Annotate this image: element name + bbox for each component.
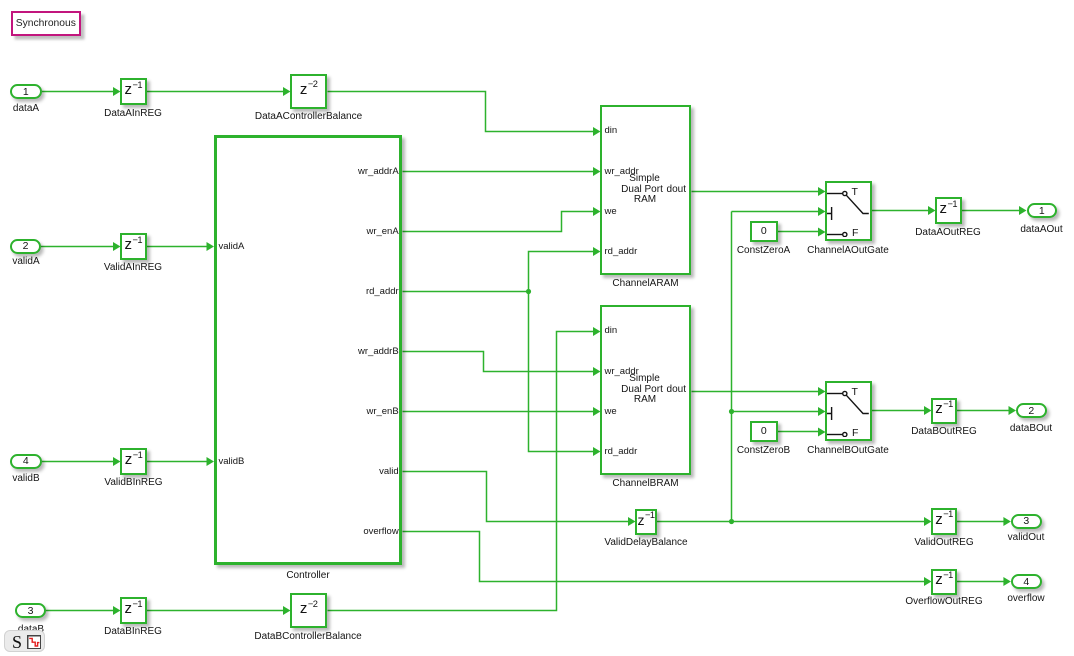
ChannelBRAM port label din — [605, 325, 618, 337]
wire Controller.wr_enA-ARAM.we — [403, 212, 595, 232]
delay OverflowOutREG — [931, 569, 957, 596]
junction rd_addr — [526, 289, 531, 294]
inport 4 validB — [10, 454, 42, 469]
delay DataBControllerBalance — [290, 593, 327, 628]
wire OverflowOutREG-out4 — [957, 581, 1005, 583]
wire in4-ValidBInREG — [42, 461, 114, 463]
delay DataBInREG — [120, 597, 147, 624]
delay DataAOutREG — [935, 197, 962, 224]
wire Controller.rd_addr-junction — [403, 291, 529, 293]
ChannelBRAM text Dual Port — [621, 384, 663, 396]
ChannelBRAM text RAM — [634, 394, 656, 406]
wire Controller.wr_addrB-BRAM.wr_addr — [403, 352, 595, 372]
wire rd_addr-BRAM.rd_addr — [529, 292, 595, 452]
Controller port label wr_addrA — [358, 166, 399, 178]
delay ValidAInREG — [120, 233, 147, 260]
wire rd_addr-ARAM.rd_addr — [529, 252, 595, 292]
inport 3 dataB — [15, 603, 46, 618]
badge sample-time legend S — [4, 630, 45, 652]
wire in2-ValidAInREG — [41, 246, 114, 248]
junction valid-at-ValidOutREG-run — [729, 519, 734, 524]
wire valid-ChannelBOutGate.ctl — [732, 411, 820, 413]
constant ConstZeroB — [750, 421, 778, 443]
switch ChannelAOutGate — [825, 181, 872, 241]
inport 1 dataA — [10, 84, 42, 99]
ChannelARAM port label wr_addr — [605, 166, 639, 178]
wire ValidAInREG-Controller.validA — [147, 246, 209, 248]
ChannelARAM port label rd_addr — [605, 246, 638, 258]
ChannelBRAM port label rd_addr — [605, 446, 638, 458]
ChannelARAM text RAM — [634, 194, 656, 206]
Controller port label rd_addr — [366, 286, 399, 298]
delay ValidOutREG — [931, 508, 957, 535]
delay ValidDelayBalance — [635, 509, 657, 535]
junction valid-at-ChannelBOutGate-ctl — [729, 409, 734, 414]
wire DataBInREG-z2B — [147, 610, 285, 612]
wire ARAM.dout-ChannelAOutGate.T — [692, 191, 820, 193]
RAM ChannelARAM — [600, 105, 691, 275]
Controller port label overflow — [363, 526, 398, 538]
wire ConstZeroB-ChannelBOutGate.F — [778, 431, 819, 433]
wire valid-branch-vertical — [731, 212, 733, 522]
outport 4 overflow — [1011, 574, 1042, 589]
ChannelARAM port label we — [605, 206, 617, 218]
wire BRAM.dout-ChannelBOutGate.T — [692, 391, 820, 393]
wire DataAOutREG-out1 — [962, 210, 1021, 212]
Controller port label valid — [379, 466, 399, 478]
constant ConstZeroA — [750, 221, 778, 243]
wire Controller.wr_enB-BRAM.we — [403, 411, 595, 413]
switch ChannelBOutGate — [825, 381, 872, 441]
delay DataAControllerBalance — [290, 74, 327, 109]
Controller port label validA — [219, 241, 245, 253]
ChannelBRAM port label wr_addr — [605, 366, 639, 378]
delay ValidBInREG — [120, 448, 147, 475]
wire DataAInREG-z2A — [147, 91, 285, 93]
ChannelARAM text Dual Port — [621, 184, 663, 196]
subsystem Controller — [214, 135, 403, 565]
outport 3 validOut — [1011, 514, 1042, 529]
wire ValidOutREG-out3 — [957, 521, 1005, 523]
wire z2A-ChannelARAM.din — [328, 92, 595, 132]
annotation Synchronous — [11, 11, 82, 36]
outport 1 dataAOut — [1027, 203, 1058, 218]
ChannelARAM port label dout — [667, 184, 686, 196]
wire Controller.overflow-OverflowOutREG — [403, 532, 926, 582]
outport 2 dataBOut — [1016, 403, 1047, 418]
Controller port label validB — [219, 456, 245, 468]
wire in3-DataBInREG — [46, 610, 114, 612]
ChannelBRAM port label we — [605, 406, 617, 418]
Controller port label wr_addrB — [358, 346, 399, 358]
wire z2B-ChannelBRAM.din — [328, 332, 595, 611]
wire ValidBInREG-Controller.validB — [147, 461, 208, 463]
wire ChannelBOutGate-DataBOutREG — [872, 410, 925, 412]
Controller port label wr_enB — [366, 406, 398, 418]
ChannelARAM text Simple — [629, 173, 660, 185]
Controller port label wr_enA — [366, 226, 398, 238]
delay DataAInREG — [120, 78, 147, 105]
wire DataBOutREG-out2 — [957, 410, 1010, 412]
ChannelBRAM port label dout — [667, 384, 686, 396]
ChannelARAM port label din — [605, 125, 618, 137]
wire ConstZeroA-ChannelAOutGate.F — [778, 231, 819, 233]
wire ChannelAOutGate-DataAOutREG — [872, 210, 929, 212]
inport 2 validA — [10, 239, 41, 254]
RAM ChannelBRAM — [600, 305, 691, 475]
wire valid-ChannelAOutGate.ctl — [732, 211, 820, 213]
wire in1-DataAInREG — [42, 91, 114, 93]
wire Controller.wr_addrA-ARAM.wr_addr — [403, 171, 595, 173]
delay DataBOutREG — [931, 398, 957, 425]
ChannelBRAM text Simple — [629, 373, 660, 385]
wire Controller.valid-ValidDelayBalance — [403, 472, 630, 522]
wire ValidDelayBalance-ValidOutREG — [657, 521, 925, 523]
